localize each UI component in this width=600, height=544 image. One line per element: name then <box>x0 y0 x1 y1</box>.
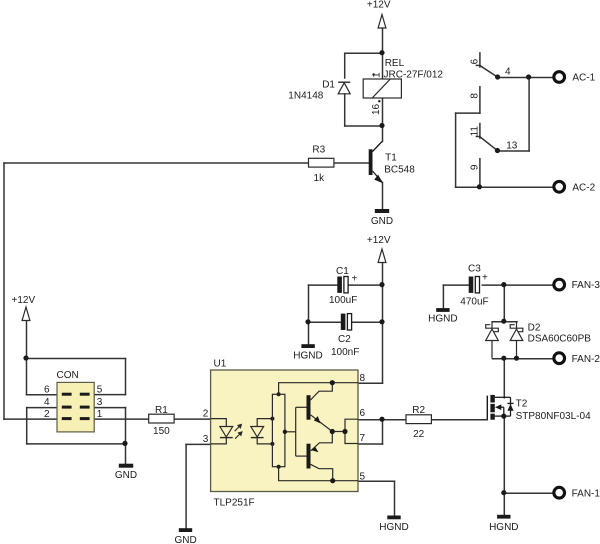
terminal AC-2 <box>554 181 565 192</box>
ground HGND under T2 <box>497 515 510 519</box>
node U1 pin5 rail <box>330 478 335 483</box>
node C2 right <box>379 319 384 324</box>
node contact 13 pivot <box>495 148 500 153</box>
svg-text:REL: REL <box>385 58 405 69</box>
wire C1 right <box>349 284 383 286</box>
node pins 6-7 join <box>379 417 384 422</box>
wire to CON pin 5 <box>95 394 126 396</box>
svg-text:5: 5 <box>360 472 366 483</box>
svg-text:JRC-27F/012: JRC-27F/012 <box>384 70 444 81</box>
svg-text:T2: T2 <box>516 399 528 410</box>
wire AC-2 line <box>456 186 554 188</box>
wire 13 riser <box>528 78 530 152</box>
svg-text:1: 1 <box>372 72 383 78</box>
svg-text:150: 150 <box>153 426 170 437</box>
svg-text:BC548: BC548 <box>384 164 415 175</box>
svg-text:U1: U1 <box>214 359 227 370</box>
svg-text:1: 1 <box>97 409 103 420</box>
wire T1 base line <box>4 162 309 164</box>
wire D1 branch bottom <box>345 125 383 127</box>
wire D2 node down to T2 drain <box>503 359 505 398</box>
power arrow +12V top <box>378 15 386 29</box>
relay contact arm 11-13 <box>480 137 498 151</box>
U1 output bracket pins 6 7 <box>332 431 345 433</box>
wire CON pin 3 to gnd <box>95 407 126 409</box>
U1 LED <box>220 427 233 438</box>
power arrow +12V left <box>22 307 30 321</box>
node U1 pin8 rail <box>330 380 335 385</box>
wire U1 pin 6 to R2 <box>359 419 407 421</box>
wire +12V rail to relay <box>382 29 384 80</box>
node FAN-1 junction <box>501 490 506 495</box>
wire C1-C2 left vertical <box>308 285 310 322</box>
svg-text:11: 11 <box>470 126 481 137</box>
U1 driver block <box>272 394 285 466</box>
svg-text:3: 3 <box>203 434 209 445</box>
wire C1 left <box>309 284 338 286</box>
wire C2 left <box>309 321 342 323</box>
svg-text:13: 13 <box>506 140 518 151</box>
svg-text:D2: D2 <box>528 323 541 334</box>
capacitor C2 <box>341 314 346 330</box>
svg-text:C1: C1 <box>336 266 349 277</box>
wire D2 bottom bar to FAN-2 <box>493 358 555 360</box>
wire pin 8 down to AC-2 line <box>455 113 457 187</box>
svg-text:1k: 1k <box>314 173 326 184</box>
wire C3 right to FAN-3 <box>482 284 554 286</box>
node U1 output <box>330 429 335 434</box>
svg-text:4: 4 <box>44 397 50 408</box>
svg-text:22: 22 <box>413 429 425 440</box>
node relay bottom junction <box>379 123 384 128</box>
U1 top rail to pin 8 <box>279 383 358 395</box>
svg-text:C2: C2 <box>338 334 351 345</box>
wire FAN-3 node down to D2 <box>503 285 505 322</box>
ground GND under CON <box>119 464 133 468</box>
ground GND under U1 pin 3 <box>179 528 192 532</box>
svg-text:+: + <box>352 274 358 285</box>
wire U1 pin 3 to GND <box>186 443 211 445</box>
wire contact 4 to AC-1 <box>498 77 554 79</box>
capacitor C3 <box>469 277 474 293</box>
node T2 source <box>501 414 506 419</box>
wire U1 pin 5 to HGND <box>359 480 395 482</box>
node photodiode anode on driver <box>270 417 274 421</box>
relay coil REL <box>363 79 401 98</box>
power arrow +12V mid <box>378 249 386 263</box>
svg-text:470uF: 470uF <box>460 296 488 307</box>
relay contact pin 6 lead <box>479 53 481 67</box>
node D2 bottom to drain <box>501 356 506 361</box>
svg-text:T1: T1 <box>385 152 397 163</box>
svg-text:7: 7 <box>360 433 366 444</box>
wire T2 source down to FAN-1 node <box>503 417 505 494</box>
node CON ground junction <box>122 441 127 446</box>
svg-text:AC-2: AC-2 <box>572 182 595 193</box>
svg-text:16: 16 <box>371 103 382 115</box>
svg-text:GND: GND <box>174 535 196 544</box>
U1 LED input wiring <box>211 419 227 427</box>
node AC-1 junction <box>526 74 531 79</box>
relay contact arm 6-4 <box>480 66 498 78</box>
ground HGND under C2 <box>301 344 314 348</box>
svg-text:+12V: +12V <box>367 0 391 10</box>
wire FAN-1 node <box>504 492 554 494</box>
ground HGND under C3 <box>436 308 449 312</box>
node D2 top <box>501 319 506 324</box>
terminal FAN-1 <box>554 487 565 498</box>
wire contact 13 <box>498 150 529 152</box>
svg-text:+12V: +12V <box>12 295 36 306</box>
svg-text:FAN-1: FAN-1 <box>572 488 600 499</box>
svg-text:8: 8 <box>470 93 481 99</box>
wire to HGND under C2 <box>308 322 310 344</box>
wire D2 top bar <box>493 321 518 323</box>
svg-text:6: 6 <box>360 408 366 419</box>
wire T1 emitter to GND <box>382 183 384 210</box>
wire +12V mid rail down <box>382 263 384 384</box>
svg-text:D1: D1 <box>322 79 335 90</box>
svg-text:GND: GND <box>371 216 393 227</box>
svg-text:FAN-3: FAN-3 <box>572 280 600 291</box>
svg-text:2: 2 <box>203 409 209 420</box>
svg-text:2: 2 <box>44 409 50 420</box>
U1 light arrows <box>235 424 243 439</box>
node pin 9 on AC-2 line <box>477 184 482 189</box>
svg-text:+: + <box>482 273 488 284</box>
wire +12V left arrow to junction <box>26 321 28 359</box>
svg-text:GND: GND <box>115 470 137 481</box>
transistor upper in U1 <box>307 395 311 420</box>
wire C3 left <box>443 284 469 286</box>
wire relay to T1 collector <box>382 99 384 142</box>
svg-text:R2: R2 <box>412 405 425 416</box>
svg-text:9: 9 <box>470 164 481 170</box>
svg-text:5: 5 <box>97 384 103 395</box>
svg-text:1N4148: 1N4148 <box>288 91 323 102</box>
node D2b anode <box>514 356 519 361</box>
diode D2a <box>486 321 523 358</box>
wire R1 to U1 pin 2 <box>175 418 212 420</box>
svg-text:6: 6 <box>470 58 481 64</box>
wire CON pin 1 to R1 <box>95 418 150 420</box>
node U1 driver base <box>283 430 287 434</box>
svg-text:AC-1: AC-1 <box>572 73 595 84</box>
wire junction down to CON pin 6 <box>26 359 28 395</box>
node C1-C2 left <box>305 319 310 324</box>
relay pin 1 label <box>372 73 374 75</box>
svg-text:TLP251F: TLP251F <box>214 497 255 508</box>
wire U1 pin 7 joins pin 6 <box>359 443 383 445</box>
svg-text:C3: C3 <box>468 264 481 275</box>
relay contact pin 9 lead <box>479 159 481 188</box>
terminal FAN-3 <box>554 279 565 290</box>
diode D2b <box>516 321 518 328</box>
terminal FAN-2 <box>554 353 565 364</box>
wire junction to CON pin5 loop top <box>27 358 126 360</box>
terminal AC-1 <box>554 72 565 83</box>
node photodiode cathode on driver <box>270 442 274 446</box>
svg-text:6: 6 <box>44 384 50 395</box>
svg-text:4: 4 <box>505 67 511 78</box>
node U1 bracket <box>342 429 347 434</box>
svg-text:HGND: HGND <box>293 350 322 361</box>
transistor lower in U1 <box>307 444 311 469</box>
node driver top <box>277 392 281 396</box>
svg-text:HGND: HGND <box>379 522 408 533</box>
resistor R1 <box>149 414 174 423</box>
svg-text:R1: R1 <box>155 405 168 416</box>
resistor R3 <box>309 158 334 167</box>
ground HGND under U1 pin 5 <box>387 516 400 520</box>
svg-text:100nF: 100nF <box>331 347 359 358</box>
wire D1 vertical <box>344 53 346 78</box>
wire left feedback vertical <box>3 163 5 419</box>
connector CON <box>57 382 94 432</box>
svg-text:R3: R3 <box>312 145 325 156</box>
U1 photodiode <box>251 427 264 438</box>
resistor R2 <box>406 415 431 424</box>
svg-text:100uF: 100uF <box>329 295 357 306</box>
node CON supply junction <box>23 355 28 360</box>
U1 base drive wiring <box>285 431 296 433</box>
wire U1 pin 8 to +12V rail <box>359 382 383 384</box>
svg-text:HGND: HGND <box>489 522 518 533</box>
svg-text:8: 8 <box>360 373 366 384</box>
wire D1 branch top <box>345 52 383 54</box>
node FAN-3 junction <box>501 282 506 287</box>
diode D1 <box>338 82 350 94</box>
node C1 right <box>379 282 384 287</box>
svg-text:3: 3 <box>97 397 103 408</box>
svg-text:DSA60C60PB: DSA60C60PB <box>528 334 592 345</box>
relay contact pin 11 lead <box>479 124 481 139</box>
relay contact pin 8 lead <box>479 87 481 113</box>
transistor T1 <box>369 142 384 184</box>
wire to CON pin 2 <box>4 418 58 420</box>
wire CON pin 4 to gnd loop <box>27 407 58 409</box>
ground GND under T1 <box>375 209 389 213</box>
capacitor C1 <box>337 277 342 293</box>
node driver bottom <box>277 465 281 469</box>
U1 bottom rail to pin 5 <box>279 467 358 481</box>
op-amp U1 TLP251F box <box>211 370 358 492</box>
wire C2 right <box>352 321 382 323</box>
node contact 4 pivot <box>495 74 500 79</box>
svg-text:+12V: +12V <box>367 235 391 246</box>
svg-text:STP80NF03L-04: STP80NF03L-04 <box>516 411 591 422</box>
wire R2 to T2 gate <box>432 419 487 421</box>
transistor T2 MOSFET <box>487 395 513 420</box>
svg-text:FAN-2: FAN-2 <box>572 354 600 365</box>
svg-text:CON: CON <box>57 370 79 381</box>
svg-text:HGND: HGND <box>428 313 457 324</box>
node relay top junction <box>379 50 384 55</box>
